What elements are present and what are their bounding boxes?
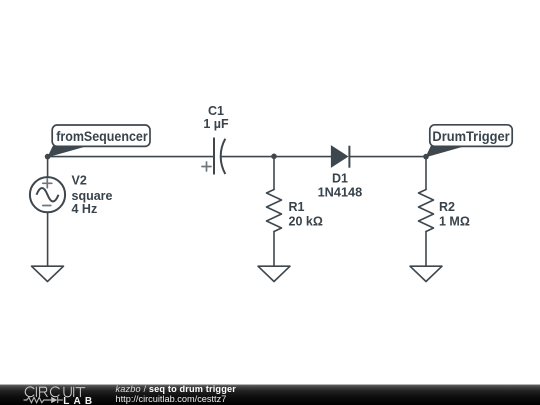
svg-text:R1: R1: [289, 200, 305, 214]
svg-text:D1: D1: [332, 172, 348, 186]
svg-text:DrumTrigger: DrumTrigger: [432, 128, 510, 144]
svg-text:LAB: LAB: [63, 396, 96, 405]
svg-text:kazbo / seq to drum trigger: kazbo / seq to drum trigger: [116, 384, 237, 394]
svg-text:C1: C1: [208, 104, 224, 118]
svg-text:R2: R2: [439, 200, 455, 214]
svg-text:1 µF: 1 µF: [203, 117, 229, 131]
svg-text:1N4148: 1N4148: [318, 185, 363, 199]
svg-text:4 Hz: 4 Hz: [72, 202, 98, 216]
svg-text:http://circuitlab.com/cesttz7: http://circuitlab.com/cesttz7: [116, 394, 227, 404]
svg-text:fromSequencer: fromSequencer: [56, 128, 148, 144]
svg-text:20 kΩ: 20 kΩ: [289, 214, 323, 228]
svg-text:square: square: [72, 189, 113, 203]
svg-text:V2: V2: [72, 174, 87, 188]
svg-text:1 MΩ: 1 MΩ: [439, 214, 470, 228]
